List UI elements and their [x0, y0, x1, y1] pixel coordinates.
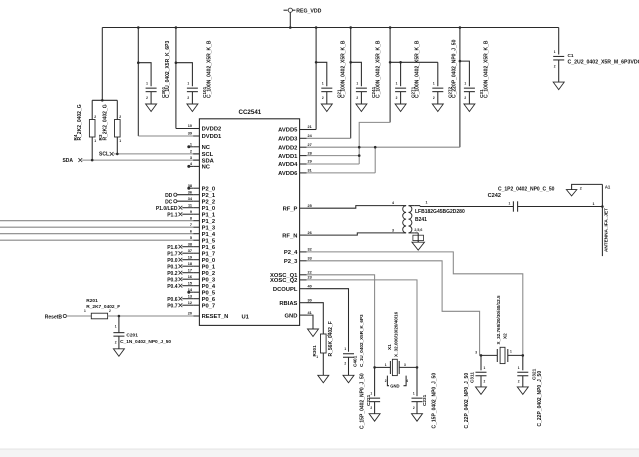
resistor R201: [84, 309, 111, 319]
svg-text:C401: C401: [352, 355, 357, 367]
ground C301: [146, 104, 157, 112]
capacitor C401: [343, 347, 354, 375]
label C101: [202, 40, 212, 98]
node P0.6: [167, 297, 193, 303]
svg-text:X1: X1: [387, 344, 392, 350]
svg-text:25: 25: [308, 204, 312, 208]
svg-text:2: 2: [396, 96, 398, 100]
svg-text:C_2U2_0402_X5R_M_6P3VDC: C_2U2_0402_X5R_M_6P3VDC: [568, 59, 639, 65]
svg-text:ANTENNA_IFA_JET: ANTENNA_IFA_JET: [604, 208, 609, 252]
pin 27 AVDD2 right stub: [278, 143, 312, 152]
svg-text:P0_5: P0_5: [202, 290, 216, 296]
svg-text:P1.7: P1.7: [167, 251, 178, 257]
junction dot C21 tap: [315, 61, 318, 64]
ground C272: [432, 104, 443, 112]
svg-text:18: 18: [188, 262, 192, 266]
label X1: [387, 311, 399, 357]
node P1.0/LED: [156, 206, 193, 212]
label C201: [120, 332, 171, 344]
svg-text:2: 2: [322, 96, 324, 100]
svg-text:P0.4: P0.4: [167, 284, 178, 290]
crystal X1: [390, 359, 399, 375]
label C231: [422, 373, 438, 429]
svg-text:2: 2: [385, 379, 387, 383]
pin 22 XOSC_Q1 right stub: [270, 271, 312, 280]
no-connect dot NC pin4: [187, 165, 193, 168]
pin 3 SDA left stub: [190, 156, 215, 165]
svg-text:P1.1: P1.1: [167, 212, 178, 218]
capacitor C1: [553, 50, 564, 82]
node P1.6: [167, 245, 193, 251]
svg-text:P1_0: P1_0: [202, 206, 216, 212]
svg-text:SCL: SCL: [99, 152, 109, 158]
wire R4 top lead: [91, 100, 93, 119]
capacitor C272: [432, 81, 443, 104]
wire P2_3 route: [307, 261, 480, 356]
svg-text:RESET_N: RESET_N: [202, 314, 229, 320]
wire R3 top lead: [116, 100, 118, 119]
wire AVDD4 drop: [389, 28, 391, 123]
pin 30 RBIAS right stub: [279, 298, 311, 307]
wire C101 jog: [176, 63, 193, 86]
pin 17 P0_2 left stub: [188, 268, 215, 277]
pin 31 AVDD6 right stub: [278, 169, 312, 178]
pin 34 P2_2 left stub: [188, 197, 215, 206]
ground C311: [476, 387, 487, 395]
pin 4 balun: [392, 201, 394, 205]
wire C301 jog: [138, 63, 151, 86]
svg-text:AVDD1: AVDD1: [278, 154, 298, 160]
wire P1_5 long: [0, 239, 193, 241]
wire X1 left lead: [375, 366, 391, 368]
svg-text:P2_4: P2_4: [284, 250, 298, 256]
svg-text:1: 1: [115, 325, 117, 329]
transformer B241 right coil: [409, 206, 415, 233]
pin 3 X1: [404, 363, 406, 367]
junction dot bus x390: [389, 26, 392, 29]
svg-text:SCL: SCL: [202, 152, 214, 158]
label net SDA: [62, 158, 73, 164]
ground C221: [369, 414, 380, 422]
wire P1_3 long: [0, 226, 193, 228]
svg-text:38: 38: [188, 242, 192, 246]
svg-text:C1: C1: [568, 53, 574, 58]
label antenna part: [604, 208, 609, 252]
svg-text:2: 2: [580, 186, 582, 190]
wire C1 lead from bus: [558, 28, 560, 55]
svg-text:2: 2: [484, 379, 486, 383]
svg-text:6: 6: [190, 229, 192, 233]
pin 1 antenna: [593, 202, 595, 206]
wire AVDD4 staircase: [359, 122, 390, 164]
pin 41 GND right stub: [285, 311, 312, 320]
no-connect dot NC pin1: [187, 145, 193, 148]
wire AVDD6 up: [374, 147, 376, 173]
label C21: [337, 40, 347, 98]
label C401: [352, 314, 364, 367]
wire C31 jog: [460, 61, 470, 86]
svg-text:R_56K_0402_F: R_56K_0402_F: [328, 321, 334, 356]
svg-text:40: 40: [308, 284, 312, 288]
wire R4 bottom lead: [91, 137, 93, 160]
svg-text:C311: C311: [470, 372, 475, 383]
pin 11 P1_0 left stub: [188, 203, 215, 212]
junction dot bus x316: [315, 26, 318, 29]
junction dot C301 tap: [137, 61, 140, 64]
svg-text:P1.0/LED: P1.0/LED: [156, 206, 178, 212]
junction dot rail x390: [389, 61, 392, 64]
node ResetB: [45, 314, 67, 320]
svg-text:C_1N_0402_NP0_J_50: C_1N_0402_NP0_J_50: [120, 339, 171, 345]
svg-text:2: 2: [518, 379, 520, 383]
svg-text:8: 8: [190, 216, 192, 220]
pin 15 P0_4 left stub: [188, 281, 216, 290]
svg-text:P0_2: P0_2: [202, 271, 216, 277]
pin 26 RF_N right stub: [282, 231, 311, 240]
svg-text:37: 37: [188, 249, 192, 253]
node P0.3: [167, 277, 193, 283]
junction dot bus x351: [349, 26, 352, 29]
node P1.1: [167, 212, 193, 218]
svg-text:R_2K7_0402_F: R_2K7_0402_F: [86, 304, 120, 310]
pin 10 DVDD2 left stub: [188, 124, 221, 133]
svg-text:1: 1: [510, 350, 512, 354]
wire bus left end down to pullup rail: [101, 28, 103, 101]
svg-text:29: 29: [308, 160, 312, 164]
svg-text:1: 1: [518, 366, 520, 370]
capacitor C241: [356, 81, 367, 104]
ground antenna: [566, 190, 576, 196]
pin 7 P1_3 left stub: [190, 223, 216, 232]
svg-text:X_32.768/20/30/40/12.5: X_32.768/20/30/40/12.5: [496, 295, 501, 344]
wire XOSC_Q1 route: [307, 275, 375, 368]
svg-text:AVDD5: AVDD5: [278, 128, 298, 134]
svg-text:27: 27: [308, 143, 312, 147]
svg-text:RF_N: RF_N: [282, 233, 297, 239]
svg-text:22: 22: [308, 271, 312, 275]
svg-text:NC: NC: [202, 165, 211, 171]
capacitor C311: [476, 372, 487, 387]
pin 8 P1_2 left stub: [190, 216, 215, 225]
svg-text:20: 20: [188, 312, 192, 316]
wire X2 right lead: [508, 354, 524, 356]
label A1: [605, 185, 611, 190]
svg-text:1: 1: [344, 347, 346, 351]
label C321: [532, 368, 543, 426]
svg-text:3: 3: [475, 351, 477, 355]
wire P1_2 long: [0, 220, 193, 222]
ground C101: [187, 104, 198, 112]
svg-text:CC2541: CC2541: [239, 109, 262, 116]
resistor R4: [89, 115, 96, 143]
ground R301: [318, 375, 329, 383]
wire antenna pin2 to gnd: [572, 184, 603, 189]
svg-text:2: 2: [119, 115, 121, 119]
svg-text:C242: C242: [488, 193, 501, 199]
wire RF_P: [307, 206, 402, 209]
power symbol REG_VDD: [284, 8, 322, 27]
svg-text:C_100N_0402_X5R_K_B: C_100N_0402_X5R_K_B: [483, 40, 489, 98]
pin 18 P0_1 left stub: [188, 262, 216, 271]
junction dot pullup rail: [101, 99, 104, 102]
pin 29 AVDD4 right stub: [278, 160, 312, 169]
wire DVDD2 feed horizontal: [176, 128, 200, 130]
label C242 value: [498, 186, 555, 192]
svg-text:32: 32: [308, 248, 312, 252]
wire pullup rail: [92, 99, 117, 101]
label R3: [98, 104, 108, 140]
label B241: [415, 209, 465, 223]
crystal X2: [497, 347, 508, 363]
svg-text:9: 9: [190, 210, 192, 214]
junction dot bus x460: [459, 26, 462, 29]
wire C321 lead: [518, 355, 523, 370]
svg-text:P0.3: P0.3: [167, 277, 178, 283]
svg-text:R_2K2_0402_G: R_2K2_0402_G: [77, 104, 83, 140]
wire ResetB to R201: [66, 315, 91, 317]
svg-text:2: 2: [94, 115, 96, 119]
svg-text:AVDD6: AVDD6: [278, 171, 298, 177]
label C221: [359, 373, 371, 429]
pin 4 X1: [406, 379, 408, 383]
svg-text:2: 2: [190, 150, 192, 154]
junction dot X1 left: [373, 366, 376, 369]
svg-text:P0.0: P0.0: [167, 258, 178, 264]
svg-text:2: 2: [413, 406, 415, 410]
pin 21 AVDD5 right stub: [278, 125, 312, 134]
wire R3 bottom lead: [116, 137, 118, 154]
wire AVDD3 long: [307, 137, 351, 139]
svg-text:1: 1: [146, 81, 148, 85]
node P0.0: [167, 258, 193, 264]
junction dot bus x176: [175, 26, 178, 29]
junction dot X2 right: [522, 354, 525, 357]
svg-text:C201: C201: [126, 332, 138, 338]
label CC2541: [239, 109, 262, 116]
svg-text:36: 36: [188, 190, 192, 194]
ground C231: [412, 414, 423, 422]
svg-text:2: 2: [433, 96, 435, 100]
svg-text:P1_7: P1_7: [202, 251, 216, 257]
svg-text:C231: C231: [422, 394, 427, 406]
pin 14 P0_5 left stub: [188, 288, 216, 297]
wire P2_4 route: [307, 252, 523, 356]
node DD: [165, 193, 193, 199]
no-connect dot P0_5: [187, 291, 193, 294]
svg-text:P2_1: P2_1: [202, 193, 216, 199]
svg-text:P2_0: P2_0: [202, 186, 216, 192]
svg-text:AVDD4: AVDD4: [278, 162, 298, 168]
wire DVDD1 feed vertical: [137, 28, 139, 137]
svg-text:X2: X2: [502, 333, 507, 339]
svg-text:2: 2: [344, 362, 346, 366]
svg-text:3: 3: [392, 229, 394, 233]
wire C272 lead: [437, 62, 439, 86]
svg-text:2,5,6: 2,5,6: [414, 228, 422, 232]
svg-text:P0.2: P0.2: [167, 271, 178, 277]
pin 6 P1_4 left stub: [190, 229, 216, 238]
svg-text:P0_3: P0_3: [202, 277, 216, 283]
svg-text:4: 4: [392, 201, 394, 205]
ground C321: [517, 387, 528, 395]
pin 5 P1_5 left stub: [190, 236, 216, 245]
wire C221 lead: [374, 367, 376, 396]
svg-text:C_15P_0402_NP0_J_50: C_15P_0402_NP0_J_50: [432, 373, 438, 429]
wire RF_N: [307, 233, 402, 235]
ground C201: [113, 349, 124, 357]
svg-text:2: 2: [115, 340, 117, 344]
pin 24 AVDD3 right stub: [278, 134, 312, 143]
wire X1 right lead: [399, 366, 417, 368]
wire cap rail y62: [390, 61, 438, 63]
wire C242 to antenna: [518, 206, 603, 208]
svg-text:P0.7: P0.7: [167, 303, 178, 309]
ground C1: [553, 82, 564, 90]
svg-text:P0_7: P0_7: [202, 303, 216, 309]
wire DVDD1 feed horizontal: [138, 135, 199, 137]
svg-text:33: 33: [308, 257, 312, 261]
svg-text:1: 1: [593, 202, 595, 206]
capacitor C201: [113, 333, 124, 349]
test pad balun gnd: [413, 235, 424, 242]
label C301: [161, 41, 171, 98]
svg-text:GND: GND: [390, 384, 399, 389]
label C1: [568, 53, 639, 65]
svg-text:1: 1: [554, 50, 556, 54]
pin 2 antenna: [580, 186, 582, 190]
wire C231 lead: [416, 367, 418, 396]
junction dot C101 tap: [175, 61, 178, 64]
svg-text:1: 1: [356, 81, 358, 85]
junction dot X2 left: [480, 354, 483, 357]
capacitor C101: [187, 81, 198, 104]
node P0.7: [167, 303, 193, 309]
svg-text:XOSC_Q2: XOSC_Q2: [270, 278, 297, 284]
pin 4 NC left stub: [190, 162, 211, 171]
svg-text:LFB182G45BG2D280: LFB182G45BG2D280: [415, 209, 465, 215]
junction dot SDA-R4: [91, 159, 94, 162]
junction dot X1 right: [416, 366, 419, 369]
label net SCL: [99, 152, 109, 158]
svg-text:P2_3: P2_3: [284, 259, 298, 265]
wire SDA: [82, 159, 199, 161]
wire C21 jog: [316, 62, 327, 86]
pin 25 RF_P right stub: [283, 204, 312, 213]
junction dot reset-C201: [118, 315, 121, 318]
junction dot bus x138: [137, 26, 140, 29]
label C271: [410, 40, 420, 98]
wire XOSC_Q2 route: [307, 280, 418, 368]
svg-text:10: 10: [188, 124, 192, 128]
capacitor C321: [517, 372, 528, 387]
svg-text:2: 2: [356, 96, 358, 100]
svg-text:P0_6: P0_6: [202, 297, 216, 303]
wire P1_4 long: [0, 233, 193, 235]
node P1.7: [167, 251, 193, 257]
svg-text:P2_2: P2_2: [202, 199, 216, 205]
svg-text:AVDD2: AVDD2: [278, 145, 297, 151]
antenna A1 element: [601, 184, 603, 256]
pin 1 X2: [510, 350, 512, 354]
svg-text:P1.6: P1.6: [167, 245, 178, 251]
svg-text:15: 15: [188, 281, 192, 285]
pin 39 DVDD1 left stub: [188, 132, 222, 141]
pin 2 X1: [385, 379, 387, 383]
pin 33 P2_3 right stub: [284, 257, 312, 266]
label X2: [496, 295, 507, 344]
svg-text:P1_3: P1_3: [202, 225, 216, 231]
svg-text:X_32.000/10/20/40/16: X_32.000/10/20/40/16: [393, 311, 398, 357]
svg-text:1: 1: [464, 81, 466, 85]
node P0.2: [167, 271, 193, 277]
svg-text:1: 1: [433, 81, 435, 85]
svg-text:C_1P2_0402_NP0_C_50: C_1P2_0402_NP0_C_50: [498, 186, 555, 192]
label X1 gnd: [390, 384, 399, 389]
divider line bottom: [0, 449, 639, 457]
ground C271: [395, 104, 406, 112]
junction dot C31 tap: [459, 60, 462, 63]
svg-text:1: 1: [484, 366, 486, 370]
svg-text:5: 5: [190, 236, 192, 240]
label C272: [448, 39, 458, 98]
svg-text:P1_6: P1_6: [202, 245, 216, 251]
svg-text:39: 39: [188, 132, 192, 136]
pin 28 AVDD1 right stub: [278, 151, 312, 160]
svg-text:P0_1: P0_1: [202, 264, 216, 270]
pin 1 X1: [385, 363, 387, 367]
junction dot REG_VDD on bus: [289, 26, 292, 29]
svg-text:2: 2: [464, 96, 466, 100]
wire R301 bottom lead: [322, 353, 324, 375]
svg-text:RBIAS: RBIAS: [279, 301, 297, 307]
svg-text:C221: C221: [366, 394, 371, 406]
junction dot antenna feed: [601, 205, 604, 208]
wire X1 gnd pads: [387, 376, 406, 386]
svg-text:SDA: SDA: [202, 158, 215, 164]
node P0.1: [167, 264, 193, 270]
svg-text:13: 13: [188, 294, 192, 298]
no-connect flag SDA: [78, 158, 82, 162]
svg-text:2: 2: [187, 96, 189, 100]
svg-text:AVDD3: AVDD3: [278, 137, 298, 143]
label C31: [479, 40, 489, 98]
wire AVDD2 drop: [459, 28, 461, 148]
wire R201 to RESET_N: [108, 315, 194, 317]
svg-text:1: 1: [385, 363, 387, 367]
no-connect dot P2_0: [187, 187, 193, 190]
wire DVDD2 feed vertical: [175, 28, 177, 129]
svg-text:1: 1: [322, 81, 324, 85]
label U1: [242, 315, 250, 321]
pin 38 P1_6 left stub: [188, 242, 216, 251]
svg-text:P1_4: P1_4: [202, 232, 216, 238]
svg-text:2: 2: [554, 65, 556, 69]
wire AVDD4 long: [307, 163, 360, 165]
svg-text:A1: A1: [605, 185, 611, 190]
svg-text:SDA: SDA: [62, 158, 73, 164]
svg-text:1: 1: [187, 81, 189, 85]
wire C271 lead: [400, 62, 402, 86]
svg-text:30: 30: [308, 298, 312, 302]
wire SCL: [114, 153, 200, 155]
svg-text:R_2K2_0402_G: R_2K2_0402_G: [102, 104, 108, 140]
svg-text:1: 1: [94, 139, 96, 143]
pin 12 P0_7 left stub: [188, 301, 215, 310]
no-connect flag SCL: [110, 152, 114, 156]
svg-text:DCOUPL: DCOUPL: [273, 287, 298, 293]
capacitor C242: [509, 201, 518, 211]
svg-text:16: 16: [188, 275, 192, 279]
